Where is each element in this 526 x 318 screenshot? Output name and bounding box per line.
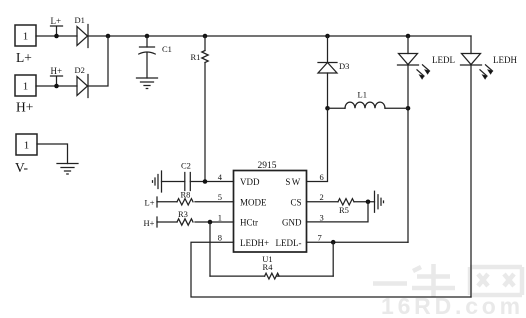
svg-text:R8: R8: [181, 189, 191, 199]
node junction HCtr/R4: [208, 220, 213, 225]
svg-text:HCtr: HCtr: [240, 218, 258, 228]
node junction D3: [325, 34, 330, 39]
resistor R1: [191, 36, 209, 182]
node H+ terminal: [51, 66, 63, 88]
LED LEDH: [461, 36, 518, 297]
svg-text:4: 4: [218, 172, 223, 182]
pin 6 number: [320, 172, 324, 182]
svg-text:L+: L+: [16, 50, 32, 65]
node H+ (HCtr) terminal: [144, 217, 158, 228]
svg-text:H+: H+: [51, 66, 63, 76]
pin 8 number: [218, 233, 222, 243]
watermark 一牛网: [373, 264, 522, 297]
pin 1 number: [218, 213, 222, 223]
pin 7 number: [318, 233, 322, 243]
svg-text:MODE: MODE: [240, 197, 267, 207]
node junction D1/D2: [106, 34, 111, 39]
svg-text:8: 8: [218, 233, 222, 243]
wire D1 to rail: [88, 35, 108, 37]
svg-text:2915: 2915: [258, 161, 277, 171]
resistor R5: [307, 199, 375, 215]
watermark 16RD.com: [381, 293, 524, 318]
resistor R8: [157, 189, 234, 205]
capacitor C1: [139, 36, 172, 78]
svg-text:R1: R1: [191, 52, 201, 62]
node junction C1: [145, 34, 150, 39]
pin 5 number: [218, 192, 222, 202]
svg-text:L1: L1: [358, 90, 367, 100]
diode D1: [75, 15, 89, 48]
node junction pin7/R4: [331, 240, 336, 245]
svg-text:D2: D2: [75, 65, 85, 75]
svg-text:LEDH+: LEDH+: [240, 238, 269, 248]
wire R4 branch vertical right: [332, 242, 334, 276]
wire SW to L1/D3 node: [307, 108, 328, 181]
node junction LEDL top: [406, 34, 411, 39]
node L+ (MODE) terminal: [145, 197, 158, 208]
wire pin8 LEDH+ loop: [191, 242, 471, 297]
svg-text:V-: V-: [15, 160, 29, 175]
svg-text:VDD: VDD: [240, 177, 260, 187]
svg-text:SW: SW: [285, 177, 301, 187]
svg-text:3: 3: [320, 213, 324, 223]
connector J1 L+: [15, 25, 36, 65]
svg-text:L+: L+: [145, 198, 155, 208]
svg-text:7: 7: [318, 233, 322, 243]
svg-text:C2: C2: [181, 161, 191, 171]
svg-text:LEDH: LEDH: [493, 55, 517, 65]
svg-text:6: 6: [320, 172, 324, 182]
svg-text:R5: R5: [339, 205, 349, 215]
svg-text:H+: H+: [16, 100, 33, 115]
pin 3 number: [320, 213, 324, 223]
svg-text:LEDL-: LEDL-: [276, 238, 302, 248]
resistor R4: [210, 262, 333, 279]
svg-text:LEDL: LEDL: [432, 55, 455, 65]
diode D2: [75, 65, 89, 98]
pin 4 number: [218, 172, 223, 182]
ground (V-): [57, 164, 78, 175]
node junction CS/GND: [366, 200, 371, 205]
svg-text:R3: R3: [178, 209, 188, 219]
top rail: [108, 35, 471, 37]
wire D2 to rail junction: [88, 36, 108, 86]
wire J2 to D2: [36, 85, 77, 87]
capacitor C2: [162, 161, 234, 191]
svg-text:H+: H+: [144, 218, 155, 228]
ground (C1): [137, 78, 158, 89]
svg-text:D1: D1: [75, 15, 85, 25]
ground (C2 side): [153, 171, 162, 192]
svg-text:1: 1: [23, 81, 29, 93]
node junction VDD/R1: [203, 179, 208, 184]
connector J2 H+: [15, 75, 36, 115]
resistor R3: [157, 209, 234, 225]
svg-text:D3: D3: [339, 61, 349, 71]
svg-text:GND: GND: [282, 218, 302, 228]
LED LEDL: [398, 36, 456, 242]
pin 2 number: [320, 192, 324, 202]
node L+ terminal: [51, 16, 63, 38]
svg-text:C1: C1: [162, 44, 172, 54]
node junction L1 left: [325, 106, 330, 111]
wire pin3 GND loop: [307, 202, 369, 222]
svg-text:CS: CS: [290, 197, 301, 207]
svg-text:L+: L+: [51, 16, 62, 26]
IC U1 2915: [234, 161, 307, 264]
svg-text:1: 1: [218, 213, 222, 223]
inductor L1: [328, 90, 409, 109]
svg-text:5: 5: [218, 192, 222, 202]
diode D3: [318, 36, 349, 108]
wire J1 to D1: [36, 35, 77, 37]
svg-text:1: 1: [24, 140, 30, 152]
connector J3 V-: [15, 134, 37, 175]
node junction R1: [203, 34, 208, 39]
svg-text:1: 1: [23, 31, 29, 43]
ground (R5 side): [375, 191, 384, 212]
wire pin7 LEDL-: [307, 241, 409, 243]
wire J3 to ground: [37, 144, 68, 164]
svg-text:R4: R4: [263, 262, 274, 272]
svg-text:2: 2: [320, 192, 324, 202]
wire R4 branch vertical left: [209, 222, 211, 276]
node junction L1 right: [406, 106, 411, 111]
